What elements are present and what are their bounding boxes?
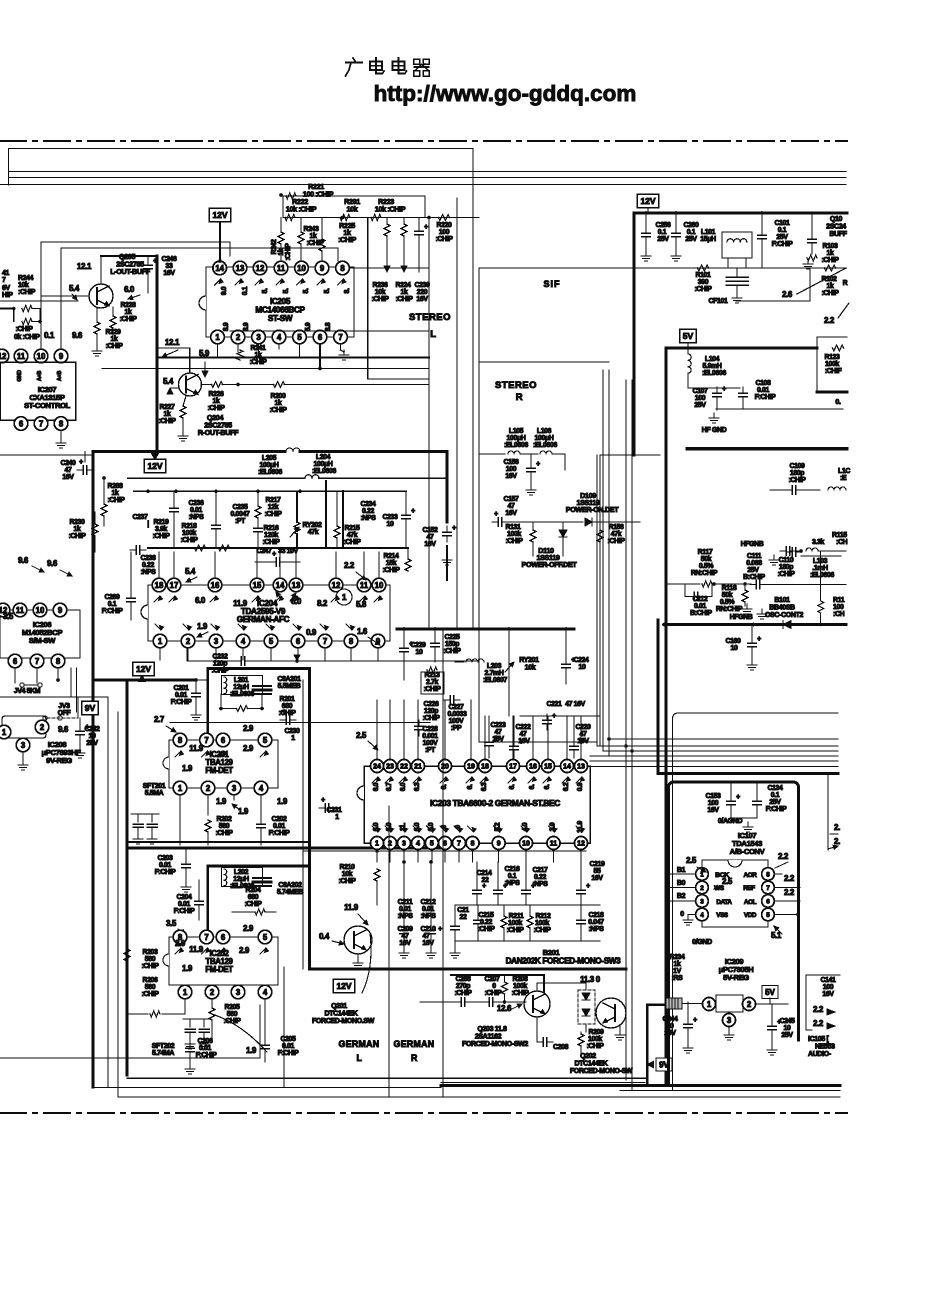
svg-text::EL0606: :EL0606 (312, 468, 336, 475)
svg-text:1k: 1k (674, 961, 681, 968)
svg-text:C227: C227 (448, 704, 464, 711)
IC206 bottom pins (8, 654, 22, 668)
svg-text:L204: L204 (316, 454, 331, 461)
svg-text:R241: R241 (250, 345, 266, 352)
wire top IC203 rail (397, 628, 574, 631)
svg-text:L1C: L1C (838, 468, 850, 475)
svg-text::NPS: :NPS (188, 514, 204, 521)
svg-text:F:CHIP: F:CHIP (278, 1050, 300, 1057)
IC203 top pins (371, 760, 384, 773)
svg-text:0/AGND: 0/AGND (718, 818, 743, 825)
svg-text:10k :CHIP: 10k :CHIP (375, 205, 406, 214)
svg-text:8: 8 (471, 841, 475, 848)
svg-text:1k: 1k (74, 526, 81, 533)
wire row y941 (455, 940, 600, 942)
power tag 9V (82, 701, 99, 715)
power tag 12V (mid-left) (144, 459, 166, 473)
pin ticks IC203 top (372, 777, 378, 783)
wire Q205 base (42, 295, 89, 297)
svg-text:OSC-CONT2: OSC-CONT2 (765, 612, 804, 619)
svg-text:5.: 5. (303, 288, 310, 293)
svg-text:1: 1 (178, 784, 183, 793)
svg-text:Q203 11.8: Q203 11.8 (477, 1026, 507, 1033)
svg-text:+: + (424, 224, 428, 231)
wire Q202 emitter ground (619, 1025, 621, 1032)
IC204 body TDA2595 (148, 585, 390, 641)
svg-text:C214: C214 (476, 870, 492, 877)
svg-text:NE553: NE553 (815, 1044, 835, 1051)
svg-text:|: | (147, 521, 149, 528)
svg-text:C245: C245 (779, 1018, 795, 1025)
resistor R243 (298, 232, 304, 244)
svg-text:5.: 5. (262, 288, 269, 293)
IC201 top pins (173, 733, 187, 747)
svg-text:C203: C203 (157, 855, 173, 862)
svg-text:1: 1 (215, 333, 220, 342)
svg-text::CHIP: :CHIP (484, 990, 502, 997)
ground IC205 pin7 (341, 350, 345, 352)
svg-text:1: 1 (2, 728, 7, 737)
svg-text:HFGNB: HFGNB (741, 541, 764, 548)
svg-text:0.4: 0.4 (319, 932, 330, 941)
header site name (353, 58, 355, 61)
svg-text:1k: 1k (827, 283, 834, 290)
resistor R221 (286, 193, 296, 199)
svg-text:6: 6 (766, 898, 770, 905)
svg-text:270p: 270p (456, 983, 470, 990)
svg-text::CHIP: :CHIP (215, 830, 233, 837)
svg-text:5.8: 5.8 (356, 600, 367, 609)
resistor R200 (274, 382, 285, 388)
svg-text:8: 8 (56, 657, 61, 666)
CF101 bottom wire (736, 300, 810, 302)
svg-text:1: 1 (335, 814, 339, 821)
svg-text:11.9: 11.9 (189, 945, 204, 954)
svg-text:+: + (777, 1019, 781, 1026)
svg-text:C201: C201 (173, 685, 189, 692)
svg-text:C209: C209 (397, 926, 413, 933)
svg-text:10k: 10k (18, 282, 29, 289)
svg-text:R200: R200 (270, 393, 286, 400)
svg-text:47: 47 (423, 933, 430, 940)
svg-text:9: 9 (497, 841, 501, 848)
node 6.0 pin14 (276, 592, 282, 600)
svg-text:47k: 47k (611, 531, 622, 538)
svg-text:CF101: CF101 (709, 298, 728, 305)
IC207 bottom wires (60, 430, 62, 440)
svg-text:C8A201: C8A201 (277, 676, 301, 683)
svg-text:16V: 16V (707, 807, 719, 814)
svg-text::CHIP: :CHIP (223, 1018, 241, 1025)
IC209 body (716, 995, 743, 1012)
resistor network RS (666, 998, 682, 1009)
svg-text:BUFF: BUFF (829, 231, 847, 238)
svg-text:C204: C204 (176, 894, 192, 901)
svg-text:560: 560 (227, 1011, 238, 1018)
resistor R223 (371, 215, 381, 221)
svg-text:100k: 100k (513, 983, 527, 990)
svg-text:680: 680 (248, 894, 259, 901)
svg-text:6: 6 (221, 736, 226, 745)
svg-text::CHIP: :CHIP (423, 686, 441, 693)
wire IC206 to 9V (0, 696, 108, 698)
svg-text:F:CHIP: F:CHIP (269, 830, 291, 837)
svg-text:15μH: 15μH (700, 236, 716, 243)
ground HFGNB1 (773, 555, 775, 560)
bottom thin frame 4 (620, 1090, 840, 1092)
9V heavy wire (646, 1005, 648, 1085)
svg-text:0.5%: 0.5% (699, 563, 714, 570)
svg-text:100μH: 100μH (314, 461, 333, 468)
svg-text:C108: C108 (755, 380, 771, 387)
wire y368 long (102, 368, 429, 370)
resistor R102 (825, 265, 836, 271)
svg-text:5: 5 (430, 841, 434, 848)
svg-text::CHIP: :CHIP (278, 710, 296, 717)
heavy rail y624 (664, 623, 846, 626)
svg-text:17: 17 (509, 764, 517, 771)
svg-text:C216: C216 (504, 866, 520, 873)
svg-text:2: 2 (186, 637, 191, 646)
svg-text:16V: 16V (416, 296, 428, 303)
svg-text:+: + (282, 709, 286, 716)
svg-text:2.: 2. (834, 837, 840, 846)
curve Q201 wire (212, 1014, 267, 1052)
svg-text:6.7: 6.7 (386, 782, 393, 791)
right heavy vertical x447 (446, 452, 449, 523)
svg-text:C110: C110 (779, 557, 794, 564)
svg-text::CHIP: :CHIP (244, 901, 262, 908)
svg-text:15: 15 (253, 581, 262, 590)
svg-text:5.: 5. (324, 288, 331, 293)
IC204 circle 1 (336, 589, 352, 605)
svg-text:RN:CHIP: RN:CHIP (691, 570, 718, 577)
svg-text:11: 11 (16, 606, 25, 615)
svg-text:1.9: 1.9 (182, 964, 193, 973)
ceramic filter CF101 (722, 232, 752, 258)
svg-text:GERMAN-AFC: GERMAN-AFC (237, 615, 290, 624)
svg-text:5V-REG: 5V-REG (723, 973, 749, 982)
capacitor cluster IC201 (137, 815, 139, 822)
svg-text:L: L (356, 1053, 362, 1063)
svg-text:16V: 16V (591, 875, 603, 882)
svg-text:FORCED-MONO.SW: FORCED-MONO.SW (312, 1018, 375, 1025)
svg-text:100μH: 100μH (507, 435, 526, 442)
svg-text:7: 7 (2, 277, 6, 284)
capacitor C256 (642, 232, 651, 234)
svg-text:16V: 16V (505, 473, 517, 480)
svg-text:L105: L105 (509, 428, 524, 435)
svg-text:R118: R118 (722, 585, 737, 592)
capacitor C260 (672, 232, 681, 234)
power tag 9V (bottom) (656, 1058, 672, 1071)
svg-text:3.3k: 3.3k (812, 539, 825, 546)
svg-text:25V: 25V (657, 236, 669, 243)
svg-text:8: 8 (178, 736, 183, 745)
svg-text:STEREO: STEREO (495, 380, 537, 391)
svg-text:5V: 5V (683, 331, 694, 341)
svg-text:0.01: 0.01 (178, 901, 191, 908)
svg-text:+: + (409, 641, 413, 648)
IC107 left pins (696, 868, 709, 881)
svg-text:5.5MEB: 5.5MEB (278, 683, 301, 690)
svg-text:R228: R228 (120, 302, 136, 309)
svg-text:HFGNB: HFGNB (730, 614, 753, 621)
svg-text:R123: R123 (824, 354, 840, 361)
svg-text:5: 5 (263, 736, 268, 745)
12V rail mid-left (93, 450, 285, 453)
pin ticks IC202 (175, 948, 181, 954)
svg-text:1.9: 1.9 (216, 797, 227, 806)
svg-text:25V: 25V (781, 1032, 793, 1039)
svg-text:4: 4 (241, 637, 246, 646)
svg-text:R117: R117 (698, 549, 713, 556)
svg-text:100k: 100k (507, 531, 521, 538)
svg-text:5: 5 (766, 912, 770, 919)
svg-text:5.9mH: 5.9mH (703, 363, 722, 370)
svg-text::CHIP: :CHIP (180, 537, 198, 544)
svg-text:SFT202: SFT202 (152, 1043, 175, 1050)
svg-text:7: 7 (338, 333, 342, 342)
svg-text:0.1: 0.1 (44, 331, 55, 340)
svg-text:F:CHIP: F:CHIP (102, 608, 124, 615)
svg-text:12V: 12V (136, 664, 151, 674)
big left box vertical (92, 452, 95, 1088)
svg-text:2.9: 2.9 (239, 946, 250, 955)
svg-text:41: 41 (2, 270, 9, 277)
svg-text:4: 4 (700, 912, 704, 919)
svg-text:C21: C21 (457, 907, 469, 914)
svg-text:22: 22 (460, 914, 467, 921)
svg-text:0.01: 0.01 (159, 862, 172, 869)
svg-text:1.9: 1.9 (246, 1046, 257, 1055)
svg-text:0.1: 0.1 (687, 229, 696, 236)
svg-text:0.01: 0.01 (757, 387, 770, 394)
svg-text:AOR: AOR (744, 872, 758, 879)
svg-text:L104: L104 (705, 356, 720, 363)
svg-text:0.047: 0.047 (588, 919, 604, 926)
svg-text:B:CHIP: B:CHIP (690, 610, 712, 617)
svg-text:+: + (757, 636, 761, 643)
svg-text:R211: R211 (509, 913, 524, 920)
svg-text:12.1: 12.1 (165, 338, 180, 347)
svg-text:6.: 6. (467, 784, 474, 789)
IC209 pins (703, 998, 716, 1011)
bus verticals right (602, 370, 604, 751)
svg-text:0: 0 (492, 983, 496, 990)
svg-text:15: 15 (544, 764, 552, 771)
svg-text:R213: R213 (424, 672, 440, 679)
svg-text:7: 7 (204, 933, 208, 942)
svg-text:R288: R288 (107, 483, 123, 490)
svg-text:25V: 25V (747, 567, 759, 574)
svg-text::NPS: :NPS (140, 569, 156, 576)
svg-text:R210: R210 (339, 864, 355, 871)
svg-text:C152: C152 (422, 527, 438, 534)
svg-text:L106: L106 (537, 428, 552, 435)
heavy rail below IC203 (303, 850, 586, 852)
svg-text::CHIP: :CHIP (207, 405, 225, 412)
wire R206 row (127, 1013, 148, 1015)
svg-text:5.74MA: 5.74MA (152, 1050, 174, 1057)
svg-text::PT: :PT (235, 518, 246, 525)
svg-text:0.01: 0.01 (273, 823, 286, 830)
svg-text:8.8: 8.8 (325, 322, 332, 331)
svg-text:L203: L203 (487, 663, 502, 670)
svg-text:5.9: 5.9 (305, 322, 312, 331)
IC209 pin3 ground (728, 1027, 730, 1032)
resistor R220 (439, 215, 450, 221)
svg-text:B:CHIP: B:CHIP (743, 574, 765, 581)
left verticals IC206-IC208 (70, 668, 72, 697)
svg-text:6.3: 6.3 (481, 782, 488, 791)
svg-text:2.7: 2.7 (154, 715, 165, 724)
svg-text:L201: L201 (234, 677, 249, 684)
svg-text:R201: R201 (279, 696, 295, 703)
svg-text:5: 5 (297, 333, 302, 342)
svg-text:0k :CHIP: 0k :CHIP (14, 334, 40, 341)
svg-text:0.9: 0.9 (306, 628, 317, 637)
svg-text::CHIP: :CHIP (269, 407, 287, 414)
svg-text:2: 2 (206, 784, 211, 793)
svg-text:R244: R244 (18, 275, 34, 282)
IC208 pins (0, 725, 11, 739)
svg-text:14: 14 (215, 264, 224, 273)
svg-text:10: 10 (297, 264, 306, 273)
svg-text::CHIP: :CHIP (777, 571, 795, 578)
svg-text::CHIP: :CHIP (586, 1043, 604, 1050)
svg-text:7: 7 (766, 885, 770, 892)
svg-text:100μH: 100μH (535, 435, 554, 442)
svg-text:1k: 1k (112, 490, 119, 497)
svg-text:+: + (321, 797, 325, 804)
svg-text::NPS: :NPS (588, 926, 604, 933)
svg-text:+: + (494, 735, 498, 742)
svg-text:2.7k: 2.7k (426, 679, 439, 686)
svg-text:47k: 47k (308, 529, 319, 536)
svg-text::CHIP: :CHIP (443, 648, 461, 655)
svg-text::CH: :CH (836, 539, 848, 546)
svg-text:12V: 12V (336, 981, 351, 991)
svg-text:0.1: 0.1 (242, 286, 249, 295)
thick box IC202 section (206, 866, 209, 937)
svg-text::CHIP: :CHIP (264, 511, 282, 518)
svg-text:18: 18 (481, 764, 489, 771)
pin ticks IC204 top (154, 596, 160, 602)
IC107 right pins (762, 868, 775, 881)
svg-text:11: 11 (550, 841, 558, 848)
svg-text:R219: R219 (153, 519, 169, 526)
IC203 bottom pins (371, 837, 384, 850)
svg-text:2.6: 2.6 (782, 290, 793, 299)
svg-text:100: 100 (708, 800, 719, 807)
svg-text:4: 4 (416, 841, 420, 848)
svg-text:BB40SB: BB40SB (769, 605, 795, 612)
svg-text:C202: C202 (271, 816, 287, 823)
svg-text:C160: C160 (725, 638, 741, 645)
svg-text:C230: C230 (284, 728, 300, 735)
wire row y905 (455, 904, 600, 906)
heavy rail y969 (310, 968, 627, 971)
IC203 body TBA6600 (364, 766, 590, 843)
svg-text:R11: R11 (833, 597, 845, 604)
svg-text:150p: 150p (445, 641, 459, 648)
svg-text:R216: R216 (263, 525, 279, 532)
svg-text:RY202: RY202 (302, 522, 322, 529)
svg-text:1k: 1k (125, 309, 132, 316)
svg-text::CHIP: :CHIP (505, 538, 523, 545)
svg-text:HF GND: HF GND (702, 427, 727, 434)
svg-text:11.9: 11.9 (189, 744, 204, 753)
svg-text:120k: 120k (264, 532, 278, 539)
svg-text:C226: C226 (423, 701, 439, 708)
svg-text:5.9: 5.9 (199, 349, 210, 358)
wire y455 left (0, 454, 93, 456)
svg-text:8.2: 8.2 (317, 599, 328, 608)
svg-text:14: 14 (563, 764, 571, 771)
svg-text:3: 3 (402, 841, 406, 848)
svg-text:C238: C238 (140, 555, 156, 562)
svg-text:10: 10 (416, 649, 423, 656)
svg-text:47: 47 (427, 534, 434, 541)
svg-text:DATA: DATA (716, 899, 732, 906)
svg-text:REF: REF (743, 885, 755, 892)
svg-text:FM-DET: FM-DET (205, 766, 233, 775)
svg-text:F:CHIP: F:CHIP (171, 699, 193, 706)
svg-text:100V: 100V (423, 740, 438, 747)
top frame lines (9, 148, 473, 150)
IC202 bottom pins (178, 985, 192, 999)
IC204 bottom pin wires (159, 648, 161, 660)
svg-text:0.01: 0.01 (422, 906, 435, 913)
svg-text:+: + (272, 551, 276, 558)
svg-text:JV3: JV3 (58, 703, 70, 710)
svg-text:C234: C234 (360, 501, 376, 508)
bus horizontal lines (609, 738, 838, 740)
svg-text:0.01: 0.01 (190, 507, 203, 514)
svg-text:5.5MA: 5.5MA (145, 790, 164, 797)
IC203 bottom pin wires (376, 850, 378, 863)
svg-text::CHIP: :CHIP (607, 538, 625, 545)
svg-text:FORCED-MONO-SW: FORCED-MONO-SW (570, 1068, 633, 1075)
second rail with L204 coil (128, 477, 304, 479)
12V rail top-right (634, 211, 847, 214)
svg-text:100: 100 (823, 984, 834, 991)
svg-text:6.0: 6.0 (400, 782, 407, 791)
bottom thin frame 1 (127, 1077, 645, 1079)
bus verticals to corner (596, 455, 598, 746)
svg-text:390: 390 (698, 279, 709, 286)
svg-text:+: + (531, 883, 535, 890)
svg-text::EL0606: :EL0606 (504, 442, 528, 449)
svg-text::CHIP: :CHIP (477, 926, 495, 933)
svg-text:FORCED-MONO-SW2: FORCED-MONO-SW2 (462, 1041, 528, 1048)
svg-text::EL0606: :EL0606 (702, 370, 726, 377)
svg-text:11: 11 (17, 352, 26, 361)
pin9 riser wire (60, 248, 62, 349)
svg-text:10: 10 (579, 664, 586, 671)
transistor Q202 circle (596, 998, 626, 1028)
svg-text:GERMAN: GERMAN (394, 1039, 435, 1049)
svg-text::CHIP: :CHIP (694, 286, 712, 293)
svg-text::CHIP: :CHIP (119, 316, 137, 323)
SIF box verticals (478, 268, 480, 742)
svg-text:2: 2 (210, 988, 215, 997)
IC206 body (0, 610, 80, 658)
svg-text:R217: R217 (265, 497, 281, 504)
center long vertical bus (472, 149, 474, 630)
svg-text::CHIP: :CHIP (107, 497, 125, 504)
